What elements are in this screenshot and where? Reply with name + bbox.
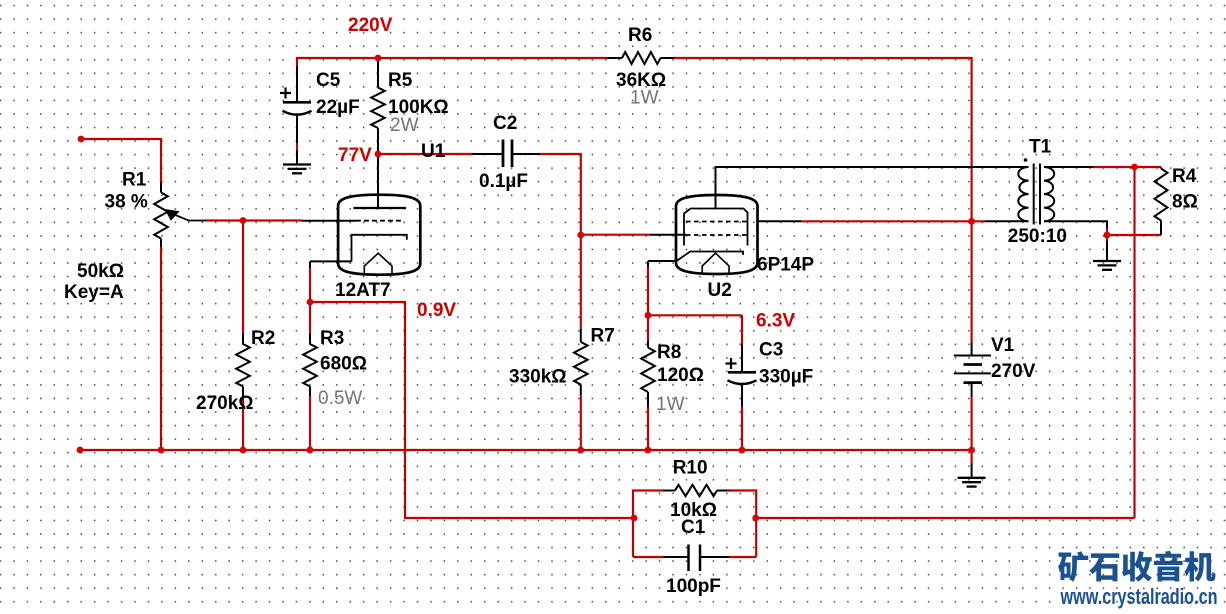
svg-text:0.1µF: 0.1µF (479, 171, 528, 192)
svg-text:U1: U1 (421, 141, 446, 162)
svg-text:100pF: 100pF (666, 576, 721, 597)
svg-text:8Ω: 8Ω (1172, 192, 1198, 213)
svg-text:77V: 77V (338, 145, 372, 166)
svg-text:0.5W: 0.5W (318, 388, 362, 409)
svg-text:R10: R10 (673, 458, 708, 479)
svg-text:C5: C5 (316, 70, 341, 91)
svg-text:22µF: 22µF (316, 97, 360, 118)
svg-text:Key=A: Key=A (64, 282, 124, 303)
svg-text:250:10: 250:10 (1008, 226, 1067, 247)
svg-text:270V: 270V (991, 361, 1036, 382)
svg-text:V1: V1 (991, 335, 1015, 356)
svg-text:220V: 220V (348, 15, 393, 36)
svg-text:1W: 1W (630, 88, 659, 109)
svg-text:1W: 1W (656, 394, 685, 415)
svg-text:0.9V: 0.9V (417, 300, 456, 321)
svg-text:U2: U2 (708, 280, 732, 301)
svg-text:270kΩ: 270kΩ (196, 393, 254, 414)
svg-text:R8: R8 (657, 342, 681, 363)
svg-text:R5: R5 (388, 70, 413, 91)
svg-text:R6: R6 (628, 25, 652, 46)
svg-text:330kΩ: 330kΩ (509, 367, 567, 388)
svg-text:T1: T1 (1029, 137, 1052, 158)
svg-text:R3: R3 (320, 328, 344, 349)
svg-text:2W: 2W (390, 115, 419, 136)
svg-text:R7: R7 (591, 326, 615, 347)
svg-text:6.3V: 6.3V (756, 311, 795, 332)
svg-text:C2: C2 (493, 113, 517, 134)
svg-text:12AT7: 12AT7 (335, 280, 391, 301)
svg-text:R4: R4 (1172, 166, 1197, 187)
svg-text:R1: R1 (122, 170, 147, 191)
svg-text:680Ω: 680Ω (320, 354, 367, 375)
svg-text:C3: C3 (759, 340, 783, 361)
svg-text:330µF: 330µF (759, 367, 813, 388)
svg-text:C1: C1 (681, 517, 706, 538)
svg-text:38 %: 38 % (105, 192, 148, 213)
svg-text:120Ω: 120Ω (657, 365, 704, 386)
svg-text:R2: R2 (251, 328, 275, 349)
svg-text:www.crystalradio.cn: www.crystalradio.cn (1060, 584, 1218, 609)
svg-text:50kΩ: 50kΩ (77, 261, 124, 282)
svg-text:6P14P: 6P14P (757, 255, 814, 276)
